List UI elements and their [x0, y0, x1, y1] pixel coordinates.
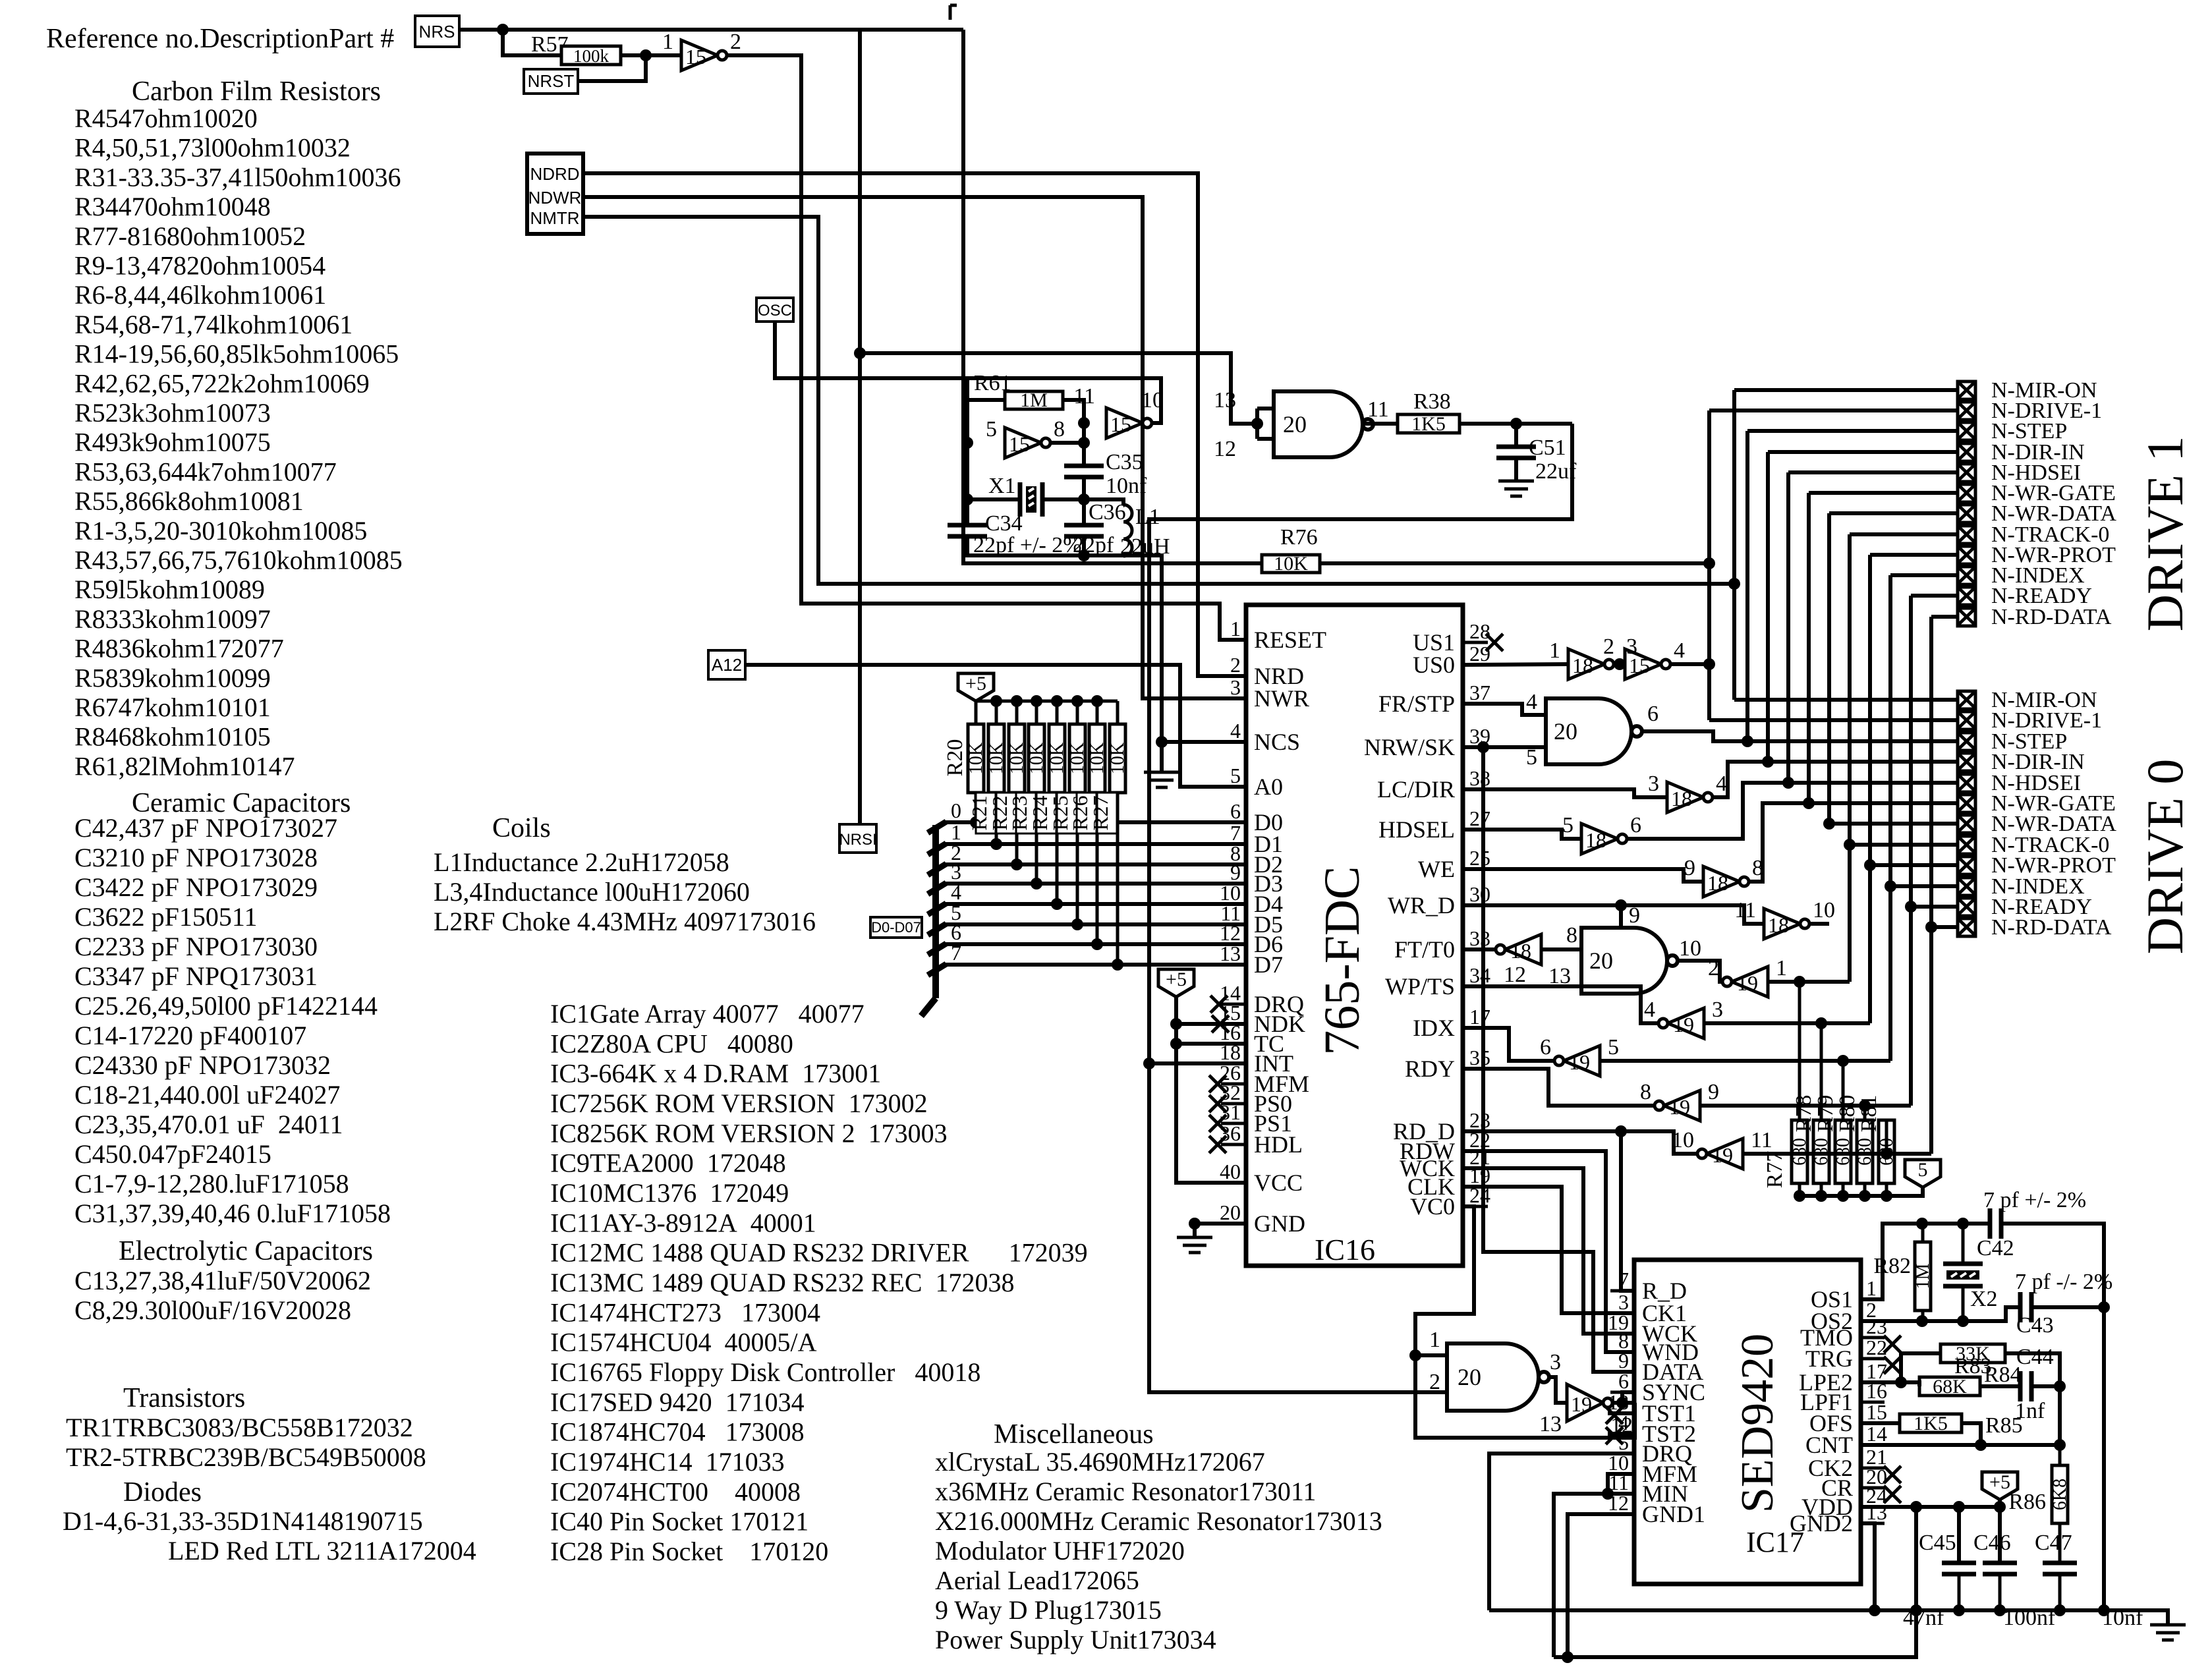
junction NMTR riser	[1728, 578, 1740, 590]
svg-text:RDY: RDY	[1405, 1056, 1455, 1082]
power +5 pull-up tag	[1905, 1160, 1941, 1187]
svg-text:L2RF Choke 4.43MHz 4097173016: L2RF Choke 4.43MHz 4097173016	[434, 907, 816, 936]
junction drive0 taps	[1742, 735, 1753, 747]
ground NCS	[1144, 771, 1179, 774]
inverter U15c pins 11-10	[1106, 408, 1143, 438]
junction U20d input 1	[1409, 1349, 1421, 1361]
svg-text:IC2074HCT00 40008: IC2074HCT00 40008	[550, 1477, 801, 1506]
wire OS1 to top rail	[1861, 1224, 1990, 1299]
svg-text:X2: X2	[1970, 1287, 1998, 1311]
junction TC	[1170, 1038, 1182, 1050]
junction GND1 rail	[1562, 1651, 1574, 1663]
svg-text:R8468kohm10105: R8468kohm10105	[74, 722, 271, 752]
svg-text:C3622 pF150511: C3622 pF150511	[74, 902, 257, 932]
junction C44	[2054, 1380, 2066, 1392]
svg-text:C42: C42	[1977, 1236, 2014, 1260]
svg-text:NRW/SK: NRW/SK	[1364, 734, 1455, 760]
svg-text:2: 2	[1429, 1370, 1440, 1394]
svg-text:8: 8	[1566, 923, 1577, 947]
svg-text:FT/T0: FT/T0	[1394, 936, 1455, 963]
svg-text:12: 12	[1214, 437, 1236, 461]
svg-text:VC0: VC0	[1410, 1193, 1455, 1220]
wire C43 right	[2031, 1305, 2104, 1309]
wire U18f to nand U20c	[1541, 947, 1581, 951]
power +5 VCC tag	[1158, 969, 1194, 997]
wire NCS gnd stem	[1160, 742, 1164, 772]
svg-text:R1-3,5,20-3010kohm10085: R1-3,5,20-3010kohm10085	[74, 516, 367, 546]
svg-text:HDL: HDL	[1254, 1131, 1303, 1158]
wire oscillator feedback loop	[967, 378, 1161, 423]
svg-text:6: 6	[1618, 1369, 1629, 1393]
svg-text:IC8256K ROM VERSION 2 173003: IC8256K ROM VERSION 2 173003	[550, 1118, 948, 1148]
svg-text:R9-13,47820ohm10054: R9-13,47820ohm10054	[74, 251, 326, 281]
svg-text:R80: R80	[1835, 1095, 1859, 1133]
capacitor C47	[2043, 1561, 2077, 1566]
svg-text:680: 680	[1833, 1138, 1854, 1166]
svg-text:CNT: CNT	[1805, 1432, 1853, 1458]
connector DRIVE 1 pins	[1958, 381, 1975, 399]
wire +5 drop	[1998, 1500, 2002, 1507]
svg-text:IC1974HC14 171033: IC1974HC14 171033	[550, 1447, 785, 1477]
resistors R77-R81 680 pull-ups	[1794, 976, 1805, 988]
svg-text:17: 17	[1469, 1005, 1490, 1029]
svg-text:R4,50,51,73l00ohm10032: R4,50,51,73l00ohm10032	[74, 133, 351, 163]
wire U19a to N-TRACK-0 riser	[1768, 980, 1850, 984]
wire R84 to C44	[1980, 1384, 2020, 1388]
junction NCS	[1156, 736, 1168, 748]
svg-text:Power Supply Unit173034: Power Supply Unit173034	[935, 1625, 1216, 1654]
svg-text:10: 10	[1672, 1128, 1694, 1152]
svg-text:10: 10	[1679, 936, 1701, 961]
svg-text:NRS: NRS	[419, 22, 455, 42]
svg-text:10nf: 10nf	[1106, 474, 1147, 498]
wire C34 bottom	[967, 536, 1123, 555]
wire OS2 rail	[1861, 1307, 2020, 1321]
svg-text:IC3-664K x 4 D.RAM 173001: IC3-664K x 4 D.RAM 173001	[550, 1059, 881, 1088]
inverter U18e WR_D pins 11-10	[1463, 905, 1764, 924]
svg-text:13: 13	[1214, 388, 1236, 412]
inverter U15d pins 3-4	[1625, 649, 1661, 679]
svg-text:19: 19	[1571, 1392, 1592, 1416]
svg-text:12: 12	[1504, 963, 1526, 987]
svg-text:2: 2	[1230, 653, 1241, 677]
svg-text:11: 11	[1367, 397, 1389, 422]
svg-text:R8333kohm10097: R8333kohm10097	[74, 604, 271, 634]
wire NRS to NRSI vertical	[858, 30, 862, 824]
junction ground rail taps	[1869, 1604, 1881, 1616]
wire C44 right	[2031, 1384, 2060, 1388]
svg-text:4: 4	[1230, 719, 1241, 743]
inverter U18c HDSEL pins 5-6	[1463, 830, 1581, 839]
svg-text:C1-7,9-12,280.luF171058: C1-7,9-12,280.luF171058	[74, 1169, 349, 1199]
svg-text:R20: R20	[943, 739, 967, 777]
svg-text:R4836kohm172077: R4836kohm172077	[74, 634, 284, 664]
capacitor C44	[2018, 1371, 2023, 1401]
svg-text:SED9420: SED9420	[1732, 1334, 1783, 1513]
svg-text:GND1: GND1	[1642, 1501, 1705, 1527]
svg-text:20: 20	[1554, 718, 1577, 745]
svg-text:IDX: IDX	[1413, 1015, 1455, 1041]
wire LPE2 line	[1861, 1382, 1919, 1386]
wire NRS net	[459, 28, 963, 32]
wire U19e right	[1743, 1152, 1931, 1156]
svg-text:D7: D7	[1254, 951, 1283, 978]
wire A12 to A0	[745, 665, 1246, 787]
svg-text:10K: 10K	[1007, 743, 1027, 774]
junction OS2 rail	[1916, 1315, 1928, 1327]
resistor R85	[1900, 1414, 1962, 1432]
svg-text:xlCrystaL 35.4690MHz172067: xlCrystaL 35.4690MHz172067	[935, 1447, 1265, 1477]
ground C51	[1498, 480, 1534, 483]
svg-text:100k: 100k	[573, 46, 610, 66]
svg-text:IC2Z80A CPU 40080: IC2Z80A CPU 40080	[550, 1029, 793, 1058]
power +5 SED tag	[1982, 1472, 2018, 1500]
ground IC16 GND	[1177, 1236, 1212, 1239]
svg-text:10K: 10K	[1067, 743, 1088, 774]
svg-text:IC16: IC16	[1315, 1233, 1375, 1266]
svg-text:Reference no.DescriptionPart #: Reference no.DescriptionPart #	[46, 24, 394, 54]
svg-text:10K: 10K	[1087, 743, 1108, 774]
svg-text:IC16765 Floppy Disk Controller: IC16765 Floppy Disk Controller 40018	[550, 1357, 980, 1387]
inverter U19c IDX pins 6-5	[1463, 1028, 1559, 1061]
svg-text:4: 4	[1716, 772, 1727, 796]
wire INT branch	[1149, 1061, 1246, 1065]
resistor R21-R27 labels	[976, 793, 996, 833]
connector DRIVE 0 pins	[1958, 691, 1975, 709]
bus D0-D7 lines	[928, 822, 946, 833]
svg-text:L1Inductance 2.2uH172058: L1Inductance 2.2uH172058	[434, 847, 729, 877]
capacitor C45	[1957, 1507, 1961, 1563]
svg-text:Electrolytic Capacitors: Electrolytic Capacitors	[119, 1236, 373, 1266]
svg-text:R5839kohm10099: R5839kohm10099	[74, 663, 271, 692]
svg-text:10K: 10K	[1108, 743, 1128, 774]
wire U15d out to drive select riser	[1670, 662, 1709, 666]
wire NRS branch to NAND input	[860, 353, 1257, 424]
svg-text:R59l5kohm10089: R59l5kohm10089	[74, 575, 265, 604]
svg-text:TR2-5TRBC239B/BC549B50008: TR2-5TRBC239B/BC549B50008	[66, 1442, 426, 1472]
resistor pack R20-R27 10K pull-ups	[975, 701, 978, 724]
wire +5 to NDK TC VCC	[1176, 997, 1246, 1183]
svg-text:10K: 10K	[966, 743, 986, 774]
wire TST1 stub	[1608, 1411, 1634, 1415]
svg-text:R14-19,56,60,85lk5ohm10065: R14-19,56,60,85lk5ohm10065	[74, 339, 399, 369]
svg-text:R42,62,65,722k2ohm10069: R42,62,65,722k2ohm10069	[74, 368, 370, 398]
inverter U19a pins 2-1	[1732, 967, 1768, 997]
svg-text:IC13MC 1489 QUAD RS232 REC 17: IC13MC 1489 QUAD RS232 REC 172038	[550, 1268, 1015, 1297]
svg-text:C31,37,39,40,46 0.luF171058: C31,37,39,40,46 0.luF171058	[74, 1199, 391, 1228]
svg-text:1: 1	[662, 30, 673, 54]
inverter U19e RD_D pins 10-11	[1463, 1131, 1702, 1154]
svg-text:680: 680	[1811, 1138, 1832, 1166]
svg-text:1M: 1M	[1913, 1263, 1933, 1289]
svg-text:R34470ohm10048: R34470ohm10048	[74, 192, 271, 221]
svg-text:C36: C36	[1089, 500, 1126, 524]
svg-text:9: 9	[1684, 856, 1695, 880]
inverter U18f FT/T0 pins 12-13	[1463, 947, 1496, 951]
svg-text:WE: WE	[1418, 856, 1455, 882]
junction NRS	[497, 24, 509, 36]
svg-text:680: 680	[1855, 1138, 1875, 1166]
node OSC	[756, 298, 793, 322]
svg-text:30: 30	[1469, 882, 1490, 906]
IC16 right pins	[1463, 641, 1488, 644]
IC17 X marks	[1606, 1407, 1623, 1424]
svg-text:2: 2	[730, 30, 741, 54]
wire C51 net to INT and NAND	[1149, 424, 1572, 1392]
svg-text:19: 19	[1569, 1050, 1590, 1074]
wire pull-up +5 rail	[1800, 1187, 1923, 1196]
svg-text:C3422 pF NPO173029: C3422 pF NPO173029	[74, 872, 318, 902]
svg-text:6: 6	[1230, 799, 1241, 823]
node NRST	[524, 69, 578, 94]
svg-text:Transistors: Transistors	[123, 1383, 245, 1413]
svg-text:A0: A0	[1254, 774, 1283, 800]
svg-text:18: 18	[1585, 828, 1606, 852]
junction NAND input	[1251, 418, 1263, 430]
svg-text:+5: +5	[1166, 969, 1187, 990]
wire NRW/SK to SED DATA	[1483, 747, 1634, 1372]
svg-text:23: 23	[1866, 1314, 1887, 1338]
wire R85 right	[1962, 1423, 1981, 1445]
svg-text:25: 25	[1469, 846, 1490, 870]
svg-text:27: 27	[1469, 806, 1490, 830]
wire OFS to R85	[1861, 1421, 1900, 1425]
svg-text:37: 37	[1469, 681, 1490, 704]
wire NRST to junction	[578, 55, 646, 81]
svg-text:C34: C34	[985, 511, 1023, 536]
wire drive0 horizontals	[1734, 698, 1958, 702]
node NRS	[415, 16, 459, 47]
svg-text:A12: A12	[712, 655, 742, 675]
svg-text:IC9TEA2000 172048: IC9TEA2000 172048	[550, 1148, 786, 1178]
svg-text:15: 15	[685, 45, 706, 69]
wire WCK to SED WCK	[1463, 1168, 1634, 1334]
svg-text:19: 19	[1712, 1143, 1733, 1167]
wire RDW to SED WND	[1463, 1151, 1634, 1352]
svg-text:R76: R76	[1280, 525, 1318, 550]
svg-text:19: 19	[1737, 971, 1758, 995]
wire U19b right	[1704, 1021, 1870, 1025]
svg-text:LED Red LTL 3211A172004: LED Red LTL 3211A172004	[168, 1536, 476, 1566]
capacitor C34	[965, 499, 969, 525]
wire CLK to SED CK1	[1463, 1187, 1634, 1313]
IC17 left pins	[1610, 1289, 1634, 1293]
junction X1 node	[1078, 494, 1090, 505]
svg-text:R85: R85	[1985, 1413, 2023, 1438]
wire U19d right	[1700, 1104, 1911, 1108]
junction US0 buffer	[1614, 658, 1626, 670]
svg-text:6: 6	[1540, 1035, 1551, 1060]
svg-text:20: 20	[1458, 1364, 1481, 1390]
wire R61 leads	[967, 398, 1005, 402]
wire U19c right	[1600, 1059, 1890, 1063]
wire U19f to SYNC	[1612, 1401, 1635, 1405]
wire MFM loop	[1608, 1474, 1634, 1494]
svg-text:22: 22	[1866, 1336, 1887, 1359]
svg-text:WP/TS: WP/TS	[1385, 973, 1455, 1000]
svg-text:L3,4Inductance l00uH172060: L3,4Inductance l00uH172060	[434, 877, 750, 907]
svg-text:D0-D07: D0-D07	[871, 919, 921, 936]
svg-text:7: 7	[1618, 1268, 1629, 1291]
svg-text:IC17SED 9420 171034: IC17SED 9420 171034	[550, 1387, 805, 1417]
wire OSC to oscillator loop	[775, 322, 967, 378]
svg-text:R53,63,644k7ohm10077: R53,63,644k7ohm10077	[74, 457, 337, 486]
wire NDWR to NWR	[583, 197, 1246, 698]
junction INT branch	[1143, 1058, 1155, 1069]
svg-text:Modulator UHF172020: Modulator UHF172020	[935, 1536, 1185, 1566]
svg-text:R77-81680ohm10052: R77-81680ohm10052	[74, 221, 306, 251]
svg-text:5: 5	[1230, 764, 1241, 787]
svg-text:IC10MC1376 172049: IC10MC1376 172049	[550, 1178, 789, 1208]
wire ground rail	[1489, 1610, 2168, 1625]
svg-text:7 pf +/- 2%: 7 pf +/- 2%	[1983, 1188, 2086, 1212]
wire drive1 horizontals	[1734, 388, 1958, 392]
inverter U19b WP/TS pins 4-3	[1463, 986, 1663, 1023]
IC17 right pins	[1861, 1298, 1885, 1301]
junction drive select riser	[1703, 557, 1715, 569]
svg-text:18: 18	[1671, 787, 1692, 810]
svg-text:4: 4	[1644, 998, 1655, 1022]
svg-text:IC28 Pin Socket 170120: IC28 Pin Socket 170120	[550, 1537, 828, 1566]
wire CNT line	[1861, 1443, 2060, 1447]
svg-text:IC1Gate Array 40077 40077: IC1Gate Array 40077 40077	[550, 999, 865, 1029]
svg-text:C3210 pF NPO173028: C3210 pF NPO173028	[74, 843, 318, 872]
junction VDD taps	[1953, 1501, 1965, 1513]
svg-text:NDRD: NDRD	[530, 164, 579, 184]
svg-text:R27: R27	[1089, 795, 1112, 830]
svg-text:NCS: NCS	[1254, 729, 1300, 755]
svg-text:NDWR: NDWR	[528, 188, 582, 208]
svg-text:15: 15	[1110, 412, 1131, 436]
op-amp IC17 SED9420 body	[1634, 1260, 1861, 1584]
svg-text:R43,57,66,75,7610kohm10085: R43,57,66,75,7610kohm10085	[74, 546, 403, 575]
svg-text:C46: C46	[1973, 1531, 2011, 1555]
svg-text:38: 38	[1469, 766, 1490, 790]
wire DRQ to ground rail	[1489, 1454, 1634, 1610]
svg-text:29: 29	[1469, 642, 1490, 665]
wire MIN loop	[1554, 1494, 1634, 1657]
svg-text:5: 5	[1562, 813, 1574, 837]
svg-text:10K: 10K	[986, 743, 1007, 774]
svg-text:R78: R78	[1792, 1095, 1816, 1133]
junction X1 left	[961, 494, 973, 505]
svg-text:US0: US0	[1413, 652, 1455, 678]
wire NMTR net	[583, 217, 1734, 584]
svg-text:680: 680	[1877, 1138, 1897, 1166]
node A12	[708, 650, 745, 679]
svg-text:1: 1	[1776, 956, 1787, 980]
IC16 left pins	[1221, 638, 1246, 642]
wire C42 to right vertical	[2001, 1224, 2104, 1610]
svg-text:8: 8	[1640, 1080, 1651, 1104]
svg-text:13: 13	[1866, 1500, 1887, 1524]
svg-text:5: 5	[986, 417, 997, 441]
svg-text:R79: R79	[1813, 1095, 1838, 1133]
svg-text:4: 4	[1526, 690, 1537, 714]
svg-text:C450.047pF24015: C450.047pF24015	[74, 1139, 271, 1169]
svg-text:+5: +5	[965, 673, 986, 694]
svg-text:IC1474HCT273 173004: IC1474HCT273 173004	[550, 1297, 820, 1327]
svg-text:IC11AY-3-8912A 40001: IC11AY-3-8912A 40001	[550, 1208, 816, 1237]
svg-text:C13,27,38,41luF/50V20062: C13,27,38,41luF/50V20062	[74, 1266, 371, 1295]
op-amp IC16 765-FDC body	[1246, 605, 1463, 1266]
svg-text:C35: C35	[1106, 450, 1143, 474]
capacitor C46	[1998, 1507, 2002, 1563]
svg-text:10: 10	[1813, 898, 1835, 922]
wire drive signal risers	[1732, 390, 1736, 584]
svg-text:C14-17220 pF400107: C14-17220 pF400107	[74, 1021, 306, 1050]
svg-text:6: 6	[1647, 702, 1659, 726]
svg-text:C3347 pF NPQ173031: C3347 pF NPQ173031	[74, 961, 318, 991]
svg-text:13: 13	[1539, 1412, 1562, 1436]
capacitor C42	[1988, 1208, 1993, 1239]
svg-text:11: 11	[1734, 898, 1756, 922]
svg-text:34: 34	[1469, 963, 1490, 987]
svg-text:C24330 pF NPO173032: C24330 pF NPO173032	[74, 1050, 331, 1080]
svg-text:RESET: RESET	[1254, 627, 1326, 653]
svg-text:X1: X1	[988, 474, 1016, 498]
svg-text:3: 3	[1230, 675, 1241, 699]
wire VC0 to nand U20d input 1 and TST loop	[1415, 1206, 1635, 1438]
wire L1 bottom to NCS/gnd	[1123, 555, 1246, 742]
svg-text:7: 7	[951, 941, 961, 965]
junction osc node 8-11	[1078, 417, 1090, 429]
svg-text:R86: R86	[2008, 1490, 2046, 1514]
wire U20d input 1	[1415, 1353, 1447, 1357]
junction CNT	[1975, 1439, 1987, 1451]
inverter U18b LC/DIR pins 3-4	[1463, 789, 1667, 797]
svg-text:10: 10	[1141, 388, 1164, 412]
svg-text:NRST: NRST	[528, 71, 575, 91]
wire GND1 loop	[1568, 1514, 1634, 1657]
svg-text:Miscellaneous: Miscellaneous	[994, 1419, 1154, 1450]
svg-text:C51: C51	[1529, 436, 1566, 460]
inverter U19f pins 13-12	[1567, 1384, 1603, 1421]
wire N-MIR-ON drive0 feed	[1732, 584, 1736, 700]
svg-text:R6747kohm10101: R6747kohm10101	[74, 692, 271, 722]
wire U18a to U15d	[1614, 662, 1625, 666]
wire VDD line	[1861, 1505, 2000, 1509]
inverter U15a pins 1-2	[681, 40, 718, 71]
svg-text:15: 15	[1009, 432, 1030, 456]
junction NRW/SK	[1477, 741, 1489, 753]
svg-text:19: 19	[1669, 1095, 1690, 1119]
junction GND	[1189, 1218, 1201, 1229]
svg-text:C8,29.30l00uF/16V20028: C8,29.30l00uF/16V20028	[74, 1295, 351, 1325]
wire NDRD to NRD	[583, 173, 1246, 676]
svg-text:R81: R81	[1857, 1095, 1881, 1133]
wire inverter out to RESET	[727, 55, 1246, 640]
svg-text:DRIVE 0: DRIVE 0	[2136, 759, 2194, 955]
svg-text:20: 20	[1283, 411, 1307, 438]
svg-text:4: 4	[1674, 638, 1685, 663]
svg-text:R55,866k8ohm10081: R55,866k8ohm10081	[74, 486, 304, 516]
svg-text:3: 3	[1550, 1350, 1561, 1374]
junction SYNC	[1616, 1397, 1628, 1409]
svg-text:IC40 Pin Socket 170121: IC40 Pin Socket 170121	[550, 1507, 808, 1537]
svg-text:19: 19	[1673, 1013, 1694, 1036]
svg-text:1K5: 1K5	[1914, 1413, 1948, 1434]
svg-text:R493k9ohm10075: R493k9ohm10075	[74, 428, 271, 457]
svg-text:680: 680	[1790, 1138, 1810, 1166]
power +5 resistor pack tag	[958, 673, 994, 701]
ground main	[2150, 1624, 2186, 1627]
svg-text:NRSI: NRSI	[839, 831, 876, 849]
svg-text:IC7256K ROM VERSION 173002: IC7256K ROM VERSION 173002	[550, 1088, 928, 1118]
wire R38 to C51	[1460, 422, 1572, 426]
svg-text:18: 18	[1572, 654, 1593, 677]
wire TST2 stub	[1608, 1432, 1634, 1436]
